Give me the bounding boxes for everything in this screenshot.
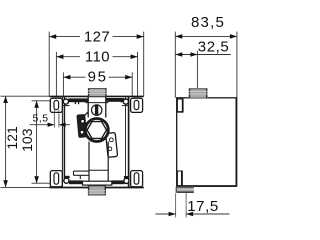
top-right plate thin line — [122, 105, 129, 107]
side box bottom edge thick — [177, 185, 237, 187]
top-left screw — [63, 99, 68, 104]
svg-text:121: 121 — [4, 126, 20, 150]
svg-text:127: 127 — [84, 28, 110, 45]
dimension 110 — [56, 52, 137, 96]
dimension 103 — [32, 101, 54, 183]
inner frame right line — [125, 97, 127, 182]
right ear bracket — [106, 133, 118, 158]
bottom-right screw cap — [124, 176, 129, 178]
top-left plate thin line — [63, 105, 70, 107]
svg-text:32,5: 32,5 — [198, 38, 230, 55]
outlet box — [83, 181, 112, 185]
plate bottom crossbar right — [112, 180, 125, 184]
dimension 17,5 — [156, 188, 230, 218]
inlet screw slot — [95, 105, 98, 115]
bottom-right mounting pad — [131, 171, 143, 187]
bottom-right pad slot — [134, 173, 139, 184]
dimension 121 — [1, 96, 50, 187]
front frame right side — [128, 96, 130, 188]
crossbar tick 1 — [75, 102, 76, 105]
left step bracket — [74, 171, 90, 179]
bottom-left mounting pad — [50, 171, 62, 187]
top-left mounting pad — [50, 98, 62, 112]
front box bottom edge — [49, 187, 144, 189]
left ear bracket — [76, 114, 87, 138]
front frame left side — [61, 96, 63, 188]
svg-text:103: 103 — [19, 128, 35, 152]
ear housing diagonal — [84, 112, 88, 116]
top-right pad slot — [134, 100, 139, 109]
dimension 95 — [63, 72, 132, 95]
svg-text:5,5: 5,5 — [33, 113, 49, 125]
top-right screw — [123, 99, 128, 104]
right ear hole 1 — [109, 138, 113, 142]
valve outer ring — [85, 119, 108, 142]
plate top crossbar right — [106, 98, 122, 102]
crossbar tick 2 — [78, 102, 79, 105]
plate top crossbar left — [68, 98, 88, 102]
inlet screw circle — [92, 105, 102, 115]
svg-text:110: 110 — [85, 49, 110, 66]
top-right mounting pad — [131, 98, 143, 112]
bottom hatched tab — [88, 185, 106, 195]
dimension 127 — [49, 32, 144, 96]
dimension 83,5 — [175, 32, 237, 98]
dimension 5,5 — [30, 110, 70, 127]
slot width extension dashes for 5,5 — [53, 110, 55, 125]
bottom-left screw cap — [64, 176, 69, 178]
bottom-left screw — [64, 178, 69, 183]
inner frame left line — [63, 97, 65, 182]
side bottom hatched block — [176, 187, 194, 193]
side box right edge thick — [235, 98, 237, 186]
front box top edge — [49, 95, 144, 97]
svg-text:95: 95 — [88, 68, 108, 85]
bottom-right screw — [124, 178, 129, 183]
top hatched tab — [88, 88, 107, 96]
top-right crossbar step — [120, 98, 126, 102]
plate bottom crossbar — [69, 180, 83, 184]
svg-text:17,5: 17,5 — [187, 198, 219, 215]
dimension 32,5 — [175, 51, 230, 89]
left ear hole 2 — [80, 130, 84, 134]
bottom-left pad slot — [54, 173, 59, 184]
outlet pipe — [89, 142, 108, 182]
top-left pad slot — [54, 100, 59, 109]
valve hexagon — [87, 122, 106, 139]
side box body — [177, 98, 237, 186]
left ear hole 1 — [81, 120, 85, 124]
side bottom clip — [177, 171, 182, 186]
right ear hole 2 — [108, 147, 112, 151]
svg-text:83,5: 83,5 — [191, 14, 225, 31]
inlet housing — [85, 97, 108, 118]
side top clip — [177, 99, 183, 112]
side top hatched tab — [189, 88, 207, 98]
